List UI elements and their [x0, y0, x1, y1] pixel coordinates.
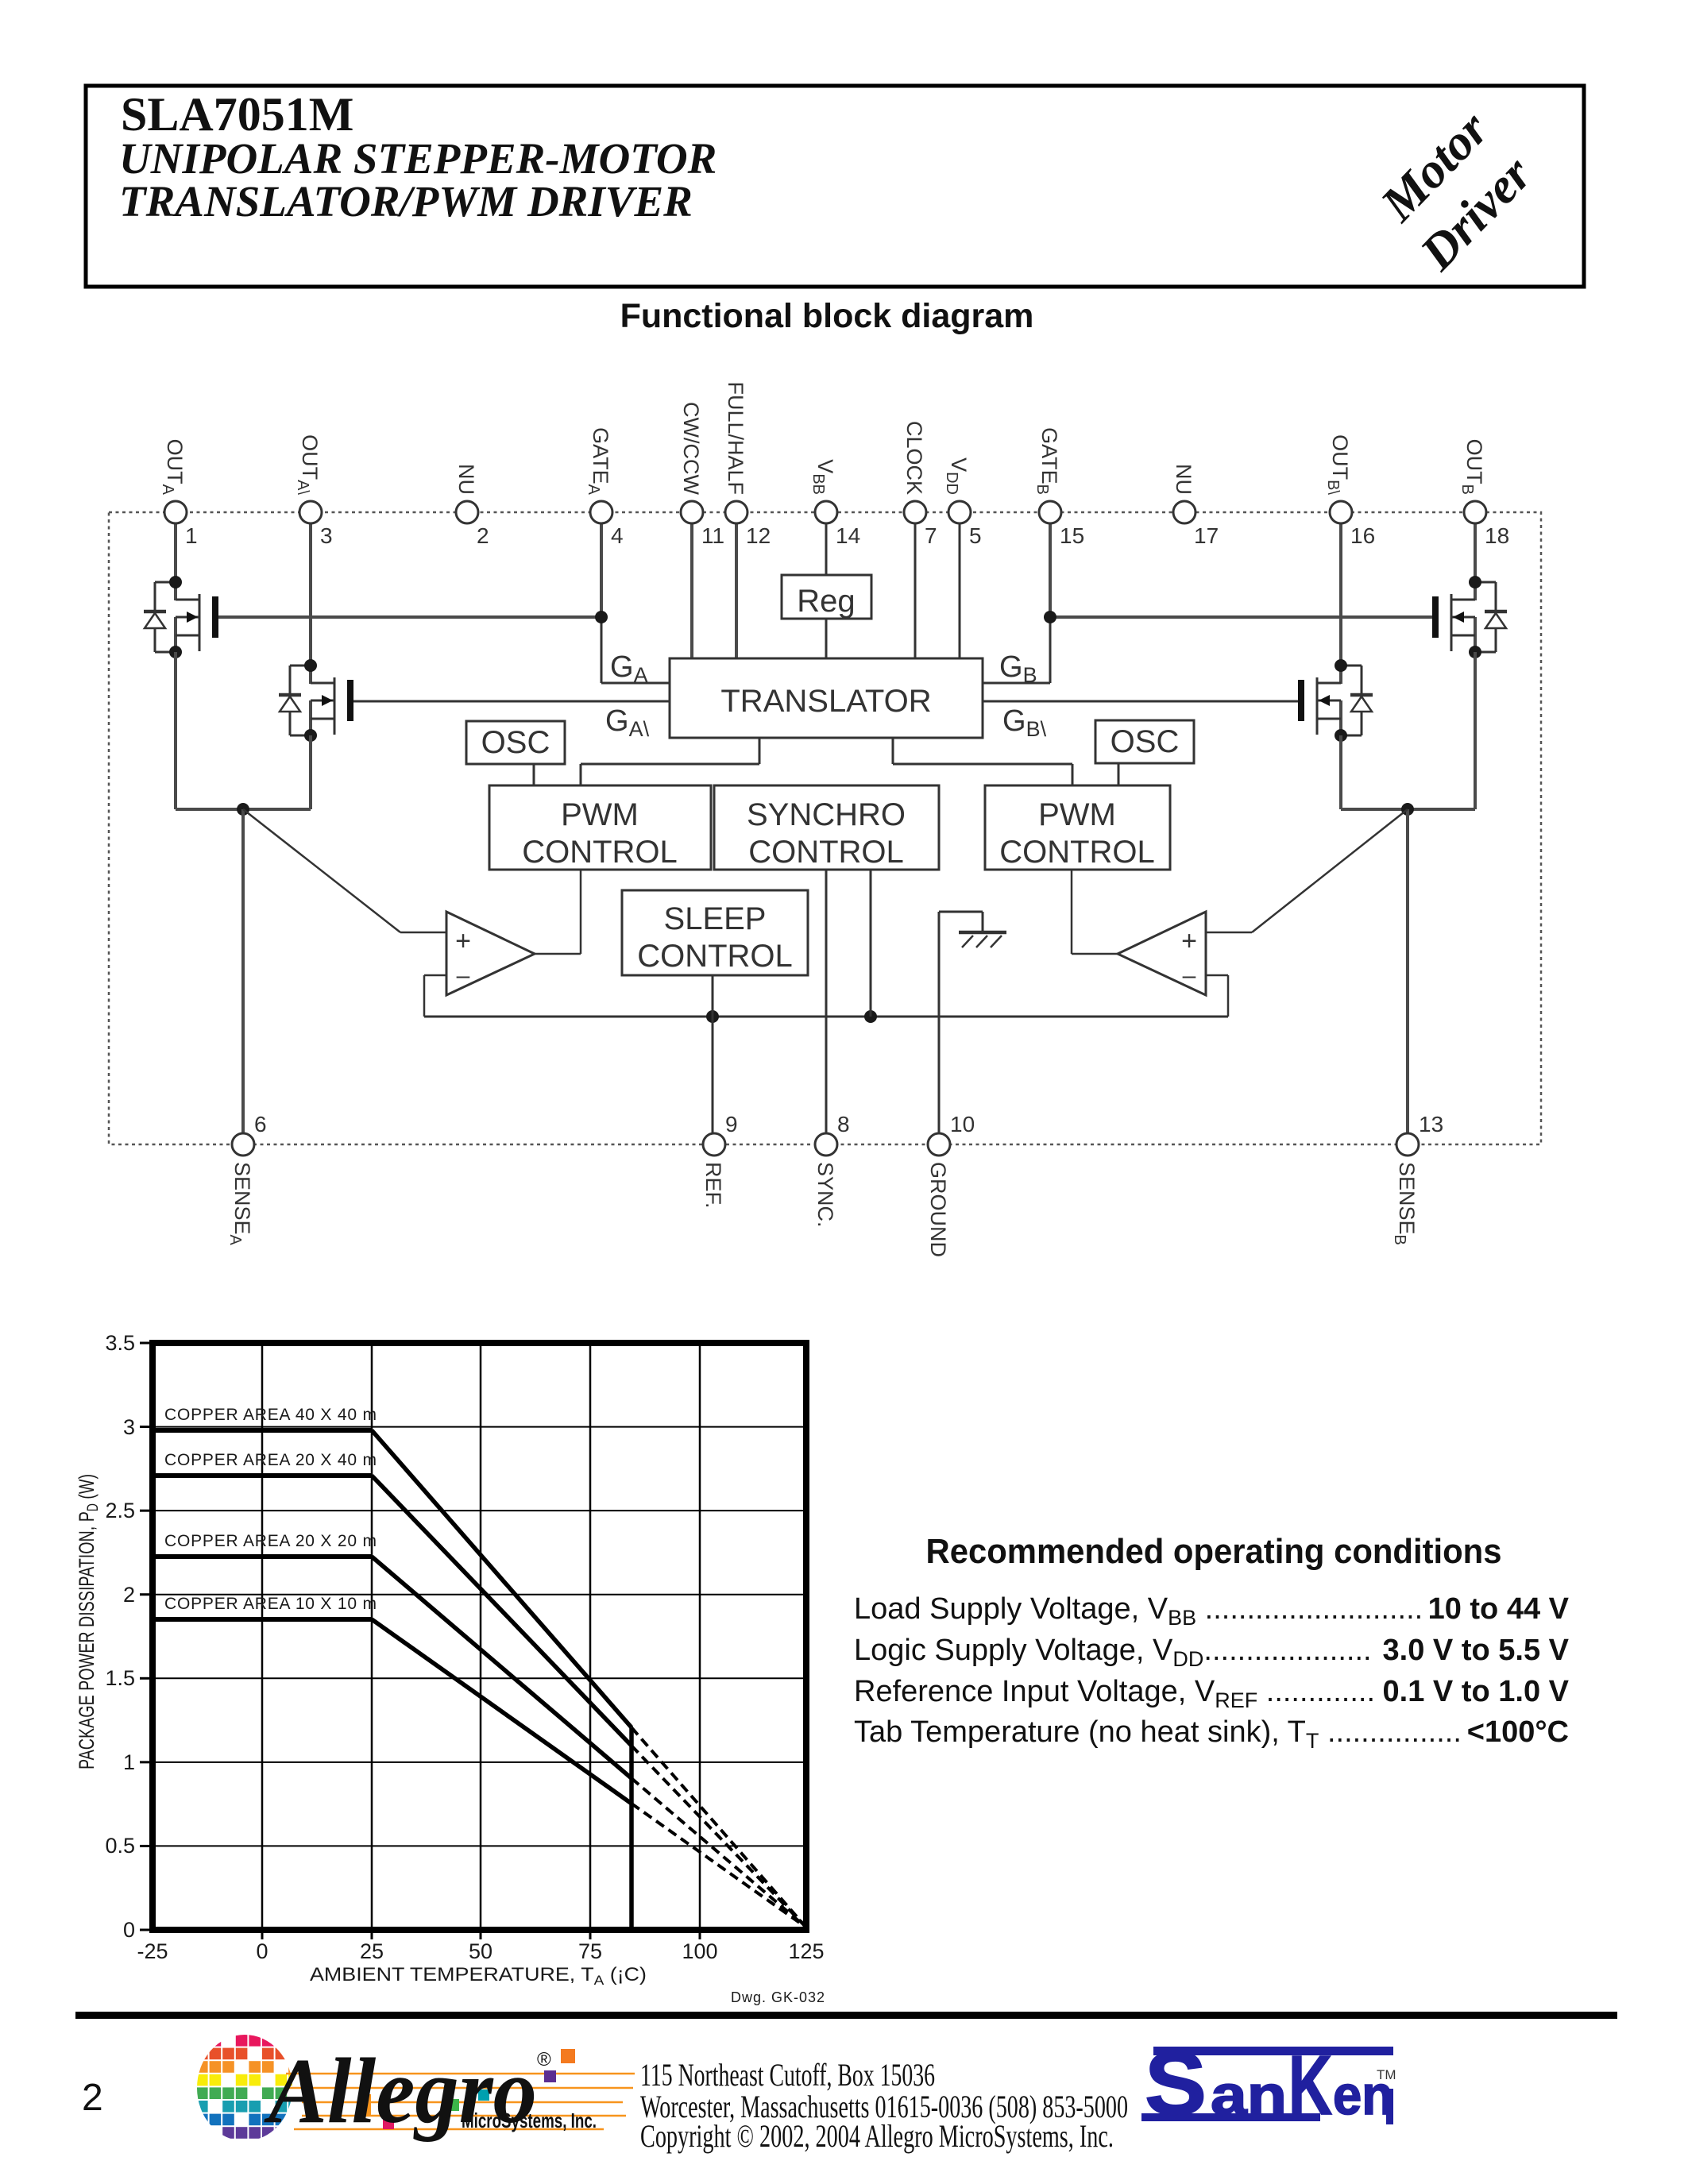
svg-text:–: – — [1183, 963, 1196, 989]
svg-text:SLA7051M: SLA7051M — [121, 88, 353, 141]
svg-text:7: 7 — [925, 523, 937, 548]
svg-text:11: 11 — [701, 523, 724, 548]
svg-text:0.1 V to 1.0 V: 0.1 V to 1.0 V — [1383, 1675, 1570, 1708]
svg-text:COPPER AREA 20 X 20 m: COPPER AREA 20 X 20 m — [164, 1532, 377, 1550]
svg-text:Load Supply Voltage, VBB .....: Load Supply Voltage, VBB ...............… — [854, 1592, 1423, 1630]
svg-text:12: 12 — [746, 523, 771, 548]
svg-text:-25: -25 — [137, 1939, 168, 1963]
svg-text:75: 75 — [578, 1939, 602, 1963]
svg-text:UNIPOLAR STEPPER-MOTOR: UNIPOLAR STEPPER-MOTOR — [119, 134, 717, 183]
svg-text:Copyright © 2002, 2004 Allegr: Copyright © 2002, 2004 Allegro MicroSyst… — [640, 2118, 1114, 2154]
svg-text:1: 1 — [123, 1750, 135, 1774]
svg-text:Functional block diagram: Functional block diagram — [620, 297, 1034, 335]
svg-text:Tab Temperature (no heat sink): Tab Temperature (no heat sink), TT .....… — [854, 1715, 1462, 1753]
svg-text:SYNCHRO: SYNCHRO — [747, 797, 906, 832]
svg-text:CLOCK: CLOCK — [902, 421, 926, 495]
svg-text:2.5: 2.5 — [105, 1499, 135, 1522]
svg-text:FULL/HALF: FULL/HALF — [724, 381, 747, 495]
svg-text:1.5: 1.5 — [105, 1666, 135, 1690]
svg-text:17: 17 — [1194, 523, 1219, 548]
svg-text:OSC: OSC — [1111, 724, 1180, 759]
svg-text:0: 0 — [123, 1918, 135, 1942]
svg-text:4: 4 — [611, 523, 624, 548]
svg-text:Recommended operating conditio: Recommended operating conditions — [926, 1532, 1502, 1571]
svg-text:SENSEB: SENSEB — [1391, 1162, 1419, 1245]
svg-text:–: – — [457, 963, 470, 989]
svg-text:CONTROL: CONTROL — [748, 835, 904, 870]
svg-text:5: 5 — [969, 523, 982, 548]
svg-text:3.5: 3.5 — [105, 1331, 135, 1355]
svg-text:9: 9 — [725, 1112, 738, 1136]
svg-text:10 to 44 V: 10 to 44 V — [1428, 1592, 1570, 1626]
svg-text:1: 1 — [185, 523, 198, 548]
svg-text:14: 14 — [836, 523, 860, 548]
svg-text:SENSEA: SENSEA — [226, 1162, 254, 1246]
svg-text:NU: NU — [1172, 464, 1196, 495]
svg-text:2: 2 — [82, 2077, 103, 2119]
svg-text:0.5: 0.5 — [105, 1834, 135, 1858]
svg-text:COPPER AREA 20 X 40 m: COPPER AREA 20 X 40 m — [164, 1451, 377, 1469]
svg-text:<100°C: <100°C — [1467, 1715, 1569, 1749]
svg-text:COPPER AREA 10 X 10 m: COPPER AREA 10 X 10 m — [164, 1595, 377, 1613]
svg-text:CW/CCW: CW/CCW — [679, 402, 703, 495]
svg-text:125: 125 — [788, 1939, 824, 1963]
svg-text:NU: NU — [454, 464, 478, 495]
svg-text:SYNC.: SYNC. — [813, 1162, 837, 1228]
svg-text:50: 50 — [469, 1939, 492, 1963]
svg-text:13: 13 — [1419, 1112, 1443, 1136]
svg-text:PACKAGE POWER DISSIPATION, PD: PACKAGE POWER DISSIPATION, PD (W) — [75, 1474, 102, 1769]
svg-text:115 Northeast Cutoff, Box 1503: 115 Northeast Cutoff, Box 15036 — [640, 2057, 935, 2093]
svg-text:MicroSystems, Inc.: MicroSystems, Inc. — [462, 2109, 597, 2132]
svg-text:REF.: REF. — [701, 1162, 725, 1209]
svg-text:100: 100 — [682, 1939, 717, 1963]
svg-text:PWM: PWM — [1038, 797, 1116, 832]
svg-text:OSC: OSC — [481, 725, 550, 760]
svg-text:TRANSLATOR: TRANSLATOR — [720, 684, 931, 719]
svg-text:3: 3 — [123, 1415, 135, 1439]
svg-text:3: 3 — [320, 523, 333, 548]
svg-text:Logic Supply Voltage, VDD.....: Logic Supply Voltage, VDD...............… — [854, 1634, 1372, 1671]
svg-text:PWM: PWM — [561, 797, 639, 832]
svg-text:K: K — [1288, 2039, 1332, 2132]
svg-text:Reg: Reg — [797, 584, 855, 619]
svg-text:CONTROL: CONTROL — [522, 835, 678, 870]
svg-text:S: S — [1145, 2034, 1207, 2133]
svg-text:16: 16 — [1350, 523, 1375, 548]
svg-text:0: 0 — [256, 1939, 268, 1963]
svg-text:+: + — [1181, 926, 1197, 956]
svg-text:2: 2 — [123, 1583, 135, 1607]
svg-text:6: 6 — [254, 1112, 267, 1136]
svg-text:COPPER AREA 40 X 40 m: COPPER AREA 40 X 40 m — [164, 1406, 377, 1424]
svg-text:an: an — [1211, 2064, 1287, 2126]
svg-text:10: 10 — [950, 1112, 975, 1136]
svg-text:CONTROL: CONTROL — [637, 939, 793, 974]
svg-text:®: ® — [537, 2049, 551, 2070]
svg-text:TRANSLATOR/PWM DRIVER: TRANSLATOR/PWM DRIVER — [119, 177, 693, 226]
svg-text:Dwg. GK-032: Dwg. GK-032 — [731, 1989, 825, 2005]
svg-text:GROUND: GROUND — [926, 1162, 950, 1257]
svg-text:2: 2 — [477, 523, 489, 548]
svg-text:3.0 V to 5.5 V: 3.0 V to 5.5 V — [1383, 1634, 1570, 1667]
svg-text:15: 15 — [1060, 523, 1084, 548]
svg-text:25: 25 — [360, 1939, 384, 1963]
svg-text:Reference Input Voltage, VREF: Reference Input Voltage, VREF ..........… — [854, 1675, 1375, 1712]
svg-text:SLEEP: SLEEP — [664, 901, 767, 936]
svg-text:CONTROL: CONTROL — [999, 835, 1155, 870]
svg-text:18: 18 — [1485, 523, 1509, 548]
svg-text:TM: TM — [1377, 2067, 1396, 2082]
svg-text:+: + — [455, 926, 471, 956]
svg-text:8: 8 — [837, 1112, 850, 1136]
